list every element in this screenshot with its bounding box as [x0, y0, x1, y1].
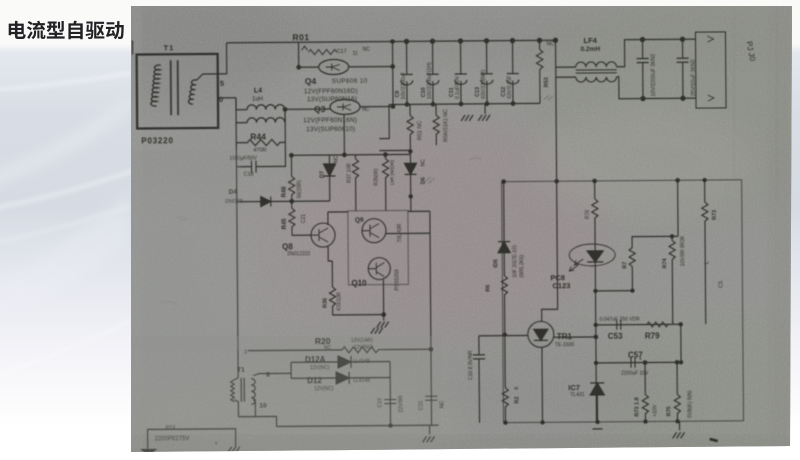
svg-text:R73 1.8: R73 1.8	[634, 397, 640, 416]
node C9 top	[405, 39, 409, 43]
LF4 winding bottom	[576, 77, 617, 82]
capacitor C53	[615, 320, 641, 330]
svg-text:R01: R01	[292, 32, 309, 42]
capacitor C19 on x389	[384, 400, 396, 404]
wire Q4 left to rail	[299, 42, 319, 67]
photo creases	[733, 6, 735, 180]
node gate rail 386	[384, 153, 388, 157]
svg-text:0.2mH: 0.2mH	[581, 46, 601, 53]
node box bottom left	[504, 421, 507, 424]
vertical feed x557	[540, 67, 558, 321]
svg-text:470/10R: 470/10R	[336, 292, 342, 311]
resistor R73 lower	[642, 395, 648, 422]
svg-text:0: 0	[219, 95, 223, 104]
wire T1 pin5 riser to top rail	[218, 43, 227, 74]
Q8 internal	[311, 228, 328, 242]
resistor R45	[289, 201, 295, 235]
wire T1 secondary to box edge	[197, 74, 218, 80]
node L4 out	[283, 108, 287, 112]
ground hash 2	[461, 115, 473, 121]
svg-text:+10V: +10V	[652, 404, 658, 417]
optocoupler PC8 LED ellipse	[569, 244, 615, 266]
node LED bottom	[594, 289, 597, 292]
svg-text:NC: NC	[363, 47, 371, 53]
ground below Q10	[377, 322, 389, 328]
swoosh arc line 3	[0, 205, 135, 243]
node C10 bottom	[431, 102, 435, 106]
output cap C14	[677, 39, 689, 98]
svg-text:C21: C21	[301, 214, 307, 223]
transistor Q10	[368, 258, 390, 280]
T1 primary winding	[151, 65, 161, 106]
swoosh band 2	[0, 95, 131, 195]
wire R20 row	[248, 349, 342, 352]
svg-text:R36: R36	[323, 298, 329, 308]
svg-text:R2: R2	[514, 397, 520, 404]
wire stub left of R51	[379, 104, 410, 150]
svg-text:D6: D6	[421, 177, 427, 184]
resistor R74	[669, 236, 676, 324]
svg-text:63V/0.1uF: 63V/0.1uF	[507, 76, 513, 99]
wire TR1 cathode down	[541, 347, 544, 422]
ground bottom rail	[429, 425, 431, 434]
svg-text:NC: NC	[362, 107, 370, 113]
node C13 top	[484, 39, 488, 43]
svg-text:LF4: LF4	[583, 36, 597, 45]
node rail x394	[391, 40, 394, 43]
Q4 internal	[326, 63, 340, 70]
bottom rail left section	[277, 425, 439, 426]
wire TR1 right	[554, 336, 596, 338]
resistor R01 snubber	[302, 46, 337, 55]
node C12 top	[510, 39, 514, 43]
wire x595 down chain	[595, 291, 596, 422]
svg-text:12V(FPF60N16D): 12V(FPF60N16D)	[304, 88, 358, 95]
ground right of RTX	[228, 447, 240, 453]
diode ID6	[498, 182, 511, 276]
wire Q4 right	[349, 66, 393, 68]
svg-text:13R (W)(W): 13R (W)(W)	[389, 160, 395, 186]
control section box	[502, 180, 744, 423]
svg-text:R51 NC: R51 NC	[417, 121, 423, 141]
svg-text:R7: R7	[622, 262, 628, 269]
capacitor bank rail (lower)	[389, 103, 540, 104]
top rail	[227, 40, 556, 43]
capacitor on x430	[425, 396, 437, 400]
svg-text:R6: R6	[485, 285, 491, 292]
svg-text:2N012222: 2N012222	[287, 251, 310, 257]
capacitor C13	[481, 41, 493, 104]
wire Q8 base	[292, 234, 311, 236]
svg-text:11: 11	[353, 51, 358, 57]
node R45/R46	[290, 200, 294, 204]
vertical rail drop x394	[392, 42, 394, 105]
node C10 top	[431, 39, 435, 43]
node R74/R7 top	[670, 235, 673, 238]
LF4 core	[576, 70, 617, 73]
node TR1 bottom	[541, 421, 544, 424]
wire LF4 left top	[556, 66, 576, 68]
X-cap RTX wire loop	[148, 429, 236, 450]
resistor R44	[236, 122, 285, 145]
node Q10 emitter	[382, 313, 386, 317]
svg-text:C17: C17	[337, 49, 347, 55]
svg-text:TL431: TL431	[570, 392, 584, 398]
wire branch resistors top	[645, 362, 677, 394]
node R73b bottom	[644, 420, 647, 423]
PC8 LED diode	[587, 244, 603, 291]
svg-text:NC: NC	[420, 159, 426, 167]
svg-text:NC: NC	[333, 155, 339, 163]
node rail x595	[593, 179, 596, 182]
svg-text:C16 8.9V/NR: C16 8.9V/NR	[468, 350, 474, 380]
swoosh arc line 2	[0, 170, 135, 208]
ground below cap bank	[484, 104, 486, 114]
shunt IC7 TL431	[590, 383, 604, 395]
vertical x680 down	[680, 324, 682, 362]
resistor R73 upper	[702, 180, 709, 324]
node x595 y326	[594, 323, 597, 326]
svg-text:(9R5.2K6): (9R5.2K6)	[519, 254, 525, 277]
resistor R76	[592, 181, 598, 244]
inductor L4	[247, 105, 285, 110]
wire D4 to R45/R46 node	[271, 200, 292, 202]
node R20/x430	[429, 348, 432, 351]
resistor R51 below rail	[407, 104, 413, 151]
svg-text:NC: NC	[547, 41, 555, 47]
wire R6 down to R2	[504, 335, 506, 388]
svg-text:10F 20(7E-10): 10F 20(7E-10)	[512, 245, 518, 278]
svg-text:0.047uF 250 VDR: 0.047uF 250 VDR	[600, 317, 640, 323]
thyristor TR1	[528, 321, 554, 347]
handwriting squiggle mid	[425, 177, 435, 183]
svg-text:R73: R73	[712, 210, 718, 220]
svg-text:R76: R76	[585, 210, 591, 219]
svg-text:R56(51K) NC: R56(51K) NC	[443, 109, 449, 142]
wire L4 to Q3	[285, 108, 331, 110]
connector pin B	[707, 36, 713, 42]
svg-text:R75: R75	[666, 406, 672, 416]
svg-text:0.1uF/50V: 0.1uF/50V	[455, 75, 461, 99]
diode D12A	[291, 356, 351, 368]
svg-text:R44: R44	[250, 132, 266, 142]
resistor R36	[329, 261, 335, 315]
resistor R37	[352, 155, 358, 211]
schematic ink	[127, 29, 760, 456]
svg-text:SVB(K) 9(N): SVB(K) 9(N)	[687, 390, 693, 418]
node D6 top	[409, 150, 412, 153]
wire LF4 right to out rail	[617, 39, 696, 67]
svg-text:13V(SUP60610): 13V(SUP60610)	[306, 126, 355, 133]
diode D6	[404, 151, 416, 196]
vertical x678 from rail	[677, 180, 679, 236]
svg-text:L4: L4	[254, 88, 262, 95]
wire left winding to drop	[234, 351, 239, 417]
resistor R20	[342, 347, 384, 353]
wire LED bottom to R7	[595, 290, 632, 292]
wire LF4 secondary return	[617, 76, 696, 99]
node C14 bottom	[681, 96, 685, 100]
capacitor C11	[455, 41, 467, 104]
svg-text:Q3: Q3	[314, 104, 326, 114]
svg-text:L: L	[704, 261, 710, 264]
transistor Q9	[362, 219, 386, 243]
svg-text:R46: R46	[282, 186, 288, 198]
Q3 internal	[337, 103, 351, 110]
gate drive rail	[291, 153, 410, 156]
resistor R75	[674, 394, 680, 421]
resistor R46	[288, 155, 294, 201]
rail drop to LF4	[555, 40, 557, 67]
resistor R79	[647, 322, 669, 327]
svg-text:R37 10R: R37 10R	[346, 163, 352, 183]
ground above R20	[371, 328, 383, 334]
diode D4	[237, 196, 271, 206]
mosfet Q4 body	[319, 59, 349, 74]
resistor R2	[502, 388, 508, 423]
svg-text:C5: C5	[718, 281, 724, 288]
wire Q3 right	[360, 106, 393, 108]
wire pin0 to L4	[236, 98, 247, 110]
svg-text:56(15R): 56(15R)	[297, 180, 303, 198]
wire D6 down to drive box	[410, 196, 412, 211]
node R75 bottom	[676, 420, 679, 423]
output connector box	[695, 32, 726, 108]
node rail end	[553, 38, 557, 42]
node box topleft	[502, 180, 506, 184]
LF4 winding top	[576, 62, 617, 67]
svg-text:IC7: IC7	[568, 383, 580, 392]
resistor R53	[536, 40, 543, 103]
node rail x678	[676, 179, 679, 182]
TR1 triangle	[534, 329, 548, 340]
diode D7	[323, 155, 335, 201]
node R53 top	[537, 38, 541, 42]
transistor Q8	[311, 223, 335, 247]
wire C57 row	[596, 361, 681, 364]
swoosh band 1	[0, 190, 131, 330]
wire Q3 gate down	[343, 115, 345, 155]
svg-text:D7: D7	[320, 171, 326, 178]
wire pin8 to diode bracket	[253, 362, 291, 378]
wire pin10 down to rail	[238, 399, 276, 426]
T1 secondary winding	[188, 80, 197, 104]
svg-text:P03220: P03220	[141, 136, 173, 145]
capacitor C16	[473, 336, 486, 423]
output cap C7	[637, 40, 649, 99]
svg-text:R74: R74	[662, 257, 668, 268]
svg-text:R53: R53	[544, 77, 550, 87]
smudge mark left2	[161, 302, 179, 306]
mosfet Q3 body	[330, 99, 360, 114]
node x389 bottom	[389, 424, 392, 427]
smudge mark center	[469, 158, 481, 160]
svg-text:5: 5	[220, 79, 224, 88]
transformer T1 (top) box	[137, 54, 219, 129]
wire D7 to base node	[292, 200, 330, 202]
svg-text:Q8: Q8	[282, 242, 293, 251]
ink smudge	[710, 439, 718, 441]
node C11 bottom	[459, 102, 463, 106]
capacitor C57	[631, 358, 635, 368]
node C7 top	[640, 38, 644, 42]
node C11 top	[458, 39, 462, 43]
swoosh arc line 4	[0, 318, 135, 375]
T1 bottom core	[241, 378, 244, 402]
svg-text:R45: R45	[282, 218, 288, 230]
T1 bottom winding left	[231, 380, 235, 402]
node IC7 bottom	[596, 420, 599, 423]
capacitor C12	[507, 41, 519, 104]
svg-text:Q9: Q9	[355, 217, 364, 224]
wire diodes to x389	[349, 362, 391, 426]
node C14 top	[680, 37, 684, 41]
svg-text:+: +	[639, 357, 642, 363]
winding of R44 damper	[247, 109, 285, 122]
resistor R6	[501, 276, 507, 335]
svg-text:10V/2200uF(1H): 10V/2200uF(1H)	[427, 62, 433, 99]
node C57 row right	[679, 361, 682, 364]
svg-text:T1: T1	[164, 43, 175, 52]
resistor R7	[629, 236, 678, 290]
wire Q8 collector up	[327, 212, 329, 225]
node R73 top	[703, 178, 706, 181]
handwriting squiggle top	[544, 95, 553, 100]
svg-text:C18: C18	[244, 172, 254, 178]
svg-text:12V(FPF60N16N): 12V(FPF60N16N)	[303, 117, 357, 124]
node 3 (T1 top pin)	[127, 39, 132, 55]
wire LF4 bottom left drop	[556, 76, 576, 78]
wire C16 to TR1	[479, 334, 528, 336]
svg-text:10V/9R 9R3K: 10V/9R 9R3K	[680, 235, 686, 266]
drive stage box	[348, 210, 409, 284]
wire below IC7	[592, 395, 602, 429]
node C12 bottom	[511, 102, 515, 106]
smudge mark left	[175, 216, 189, 221]
svg-text:10V/2200uF 3KN2: 10V/2200uF 3KN2	[651, 54, 657, 97]
svg-text:Q10: Q10	[351, 279, 367, 288]
wire Q8 emitter down	[328, 246, 332, 261]
svg-text:10V/2200uF: 10V/2200uF	[401, 72, 407, 99]
PC8 arrows	[569, 259, 583, 271]
node gate rail 292	[290, 154, 294, 158]
T1 bottom winding right	[251, 379, 255, 405]
vertical x672-680 links	[672, 320, 674, 324]
wire damper left leg	[218, 98, 248, 202]
wire Q10 emitter to ground	[332, 280, 383, 321]
T1 core	[170, 60, 172, 115]
svg-text:R79: R79	[645, 331, 660, 340]
svg-text:SUP606 10: SUP606 10	[332, 78, 368, 85]
capacitor C10	[427, 41, 439, 104]
node below D6	[409, 195, 412, 198]
svg-text:C53: C53	[608, 332, 623, 341]
svg-text:TE-1600: TE-1600	[555, 342, 574, 348]
svg-text:PSS5359: PSS5359	[394, 269, 400, 290]
svg-text:1uH: 1uH	[252, 97, 263, 103]
svg-text:470R: 470R	[253, 148, 266, 154]
svg-text:Q4: Q4	[305, 76, 317, 86]
Q9 internal	[362, 224, 379, 238]
node C9 bottom	[405, 103, 409, 107]
node C13 bottom	[485, 102, 489, 106]
svg-text:63V/330(NR): 63V/330(NR)	[481, 69, 487, 99]
Q10 internal	[368, 263, 384, 277]
title 电流型自驱动	[9, 21, 124, 40]
diode D12	[291, 372, 349, 384]
node x394 y106	[391, 105, 394, 108]
node C7 bottom	[641, 97, 645, 101]
wire C53 row	[596, 323, 681, 326]
node gate rail 345	[343, 153, 347, 157]
left drop wire to bottom T1	[237, 202, 238, 351]
swoosh arc line 1	[0, 72, 135, 90]
capacitor C9	[401, 41, 413, 104]
svg-text:ID6: ID6	[493, 259, 499, 268]
node C53 row right	[679, 323, 682, 326]
ground below box	[679, 421, 681, 430]
svg-text:70L/43R: 70L/43R	[397, 223, 403, 242]
wire Q9/Q10 right to x430	[386, 211, 431, 349]
earth arrow	[142, 449, 156, 455]
svg-text:R35(W): R35(W)	[374, 168, 380, 186]
resistor R56 below rail	[433, 104, 439, 145]
wire box top link	[328, 211, 348, 213]
wire R20 to x430 node	[384, 348, 431, 350]
svg-text:C123: C123	[552, 281, 570, 290]
node rail x557	[555, 180, 558, 183]
node R6 TR1	[503, 333, 506, 336]
resistor R35	[382, 155, 388, 211]
connector pin A	[708, 95, 714, 101]
capacitor C18	[236, 142, 285, 172]
wire x430 down	[430, 349, 433, 425]
node x595 y364	[594, 361, 597, 364]
